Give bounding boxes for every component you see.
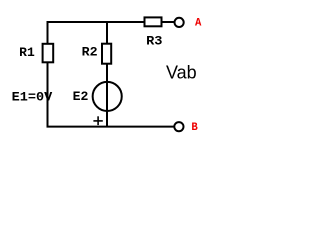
svg-text:A: A [195,17,202,29]
svg-text:E2: E2 [73,90,89,104]
resistor R3 [145,17,162,26]
wire R3 to terminal A [161,21,175,23]
wire middle vertical upper [106,21,108,44]
resistor R1 [43,44,54,63]
wire top horizontal [47,21,145,23]
polarity plus of E2 [93,116,102,125]
svg-text:R3: R3 [146,35,162,49]
resistor R2 [102,44,111,64]
terminal B circle [174,122,183,131]
svg-text:R2: R2 [82,46,98,60]
wire bottom horizontal [47,126,175,128]
voltage source E2 [93,82,122,111]
svg-text:Vab: Vab [166,63,197,83]
svg-text:E1=0V: E1=0V [12,90,53,104]
wire left vertical lower [47,63,49,128]
svg-text:R1: R1 [19,46,35,60]
wire middle vertical lower [106,63,108,128]
terminal A circle [175,18,184,27]
svg-text:B: B [191,122,198,134]
wire left vertical upper [47,21,49,45]
